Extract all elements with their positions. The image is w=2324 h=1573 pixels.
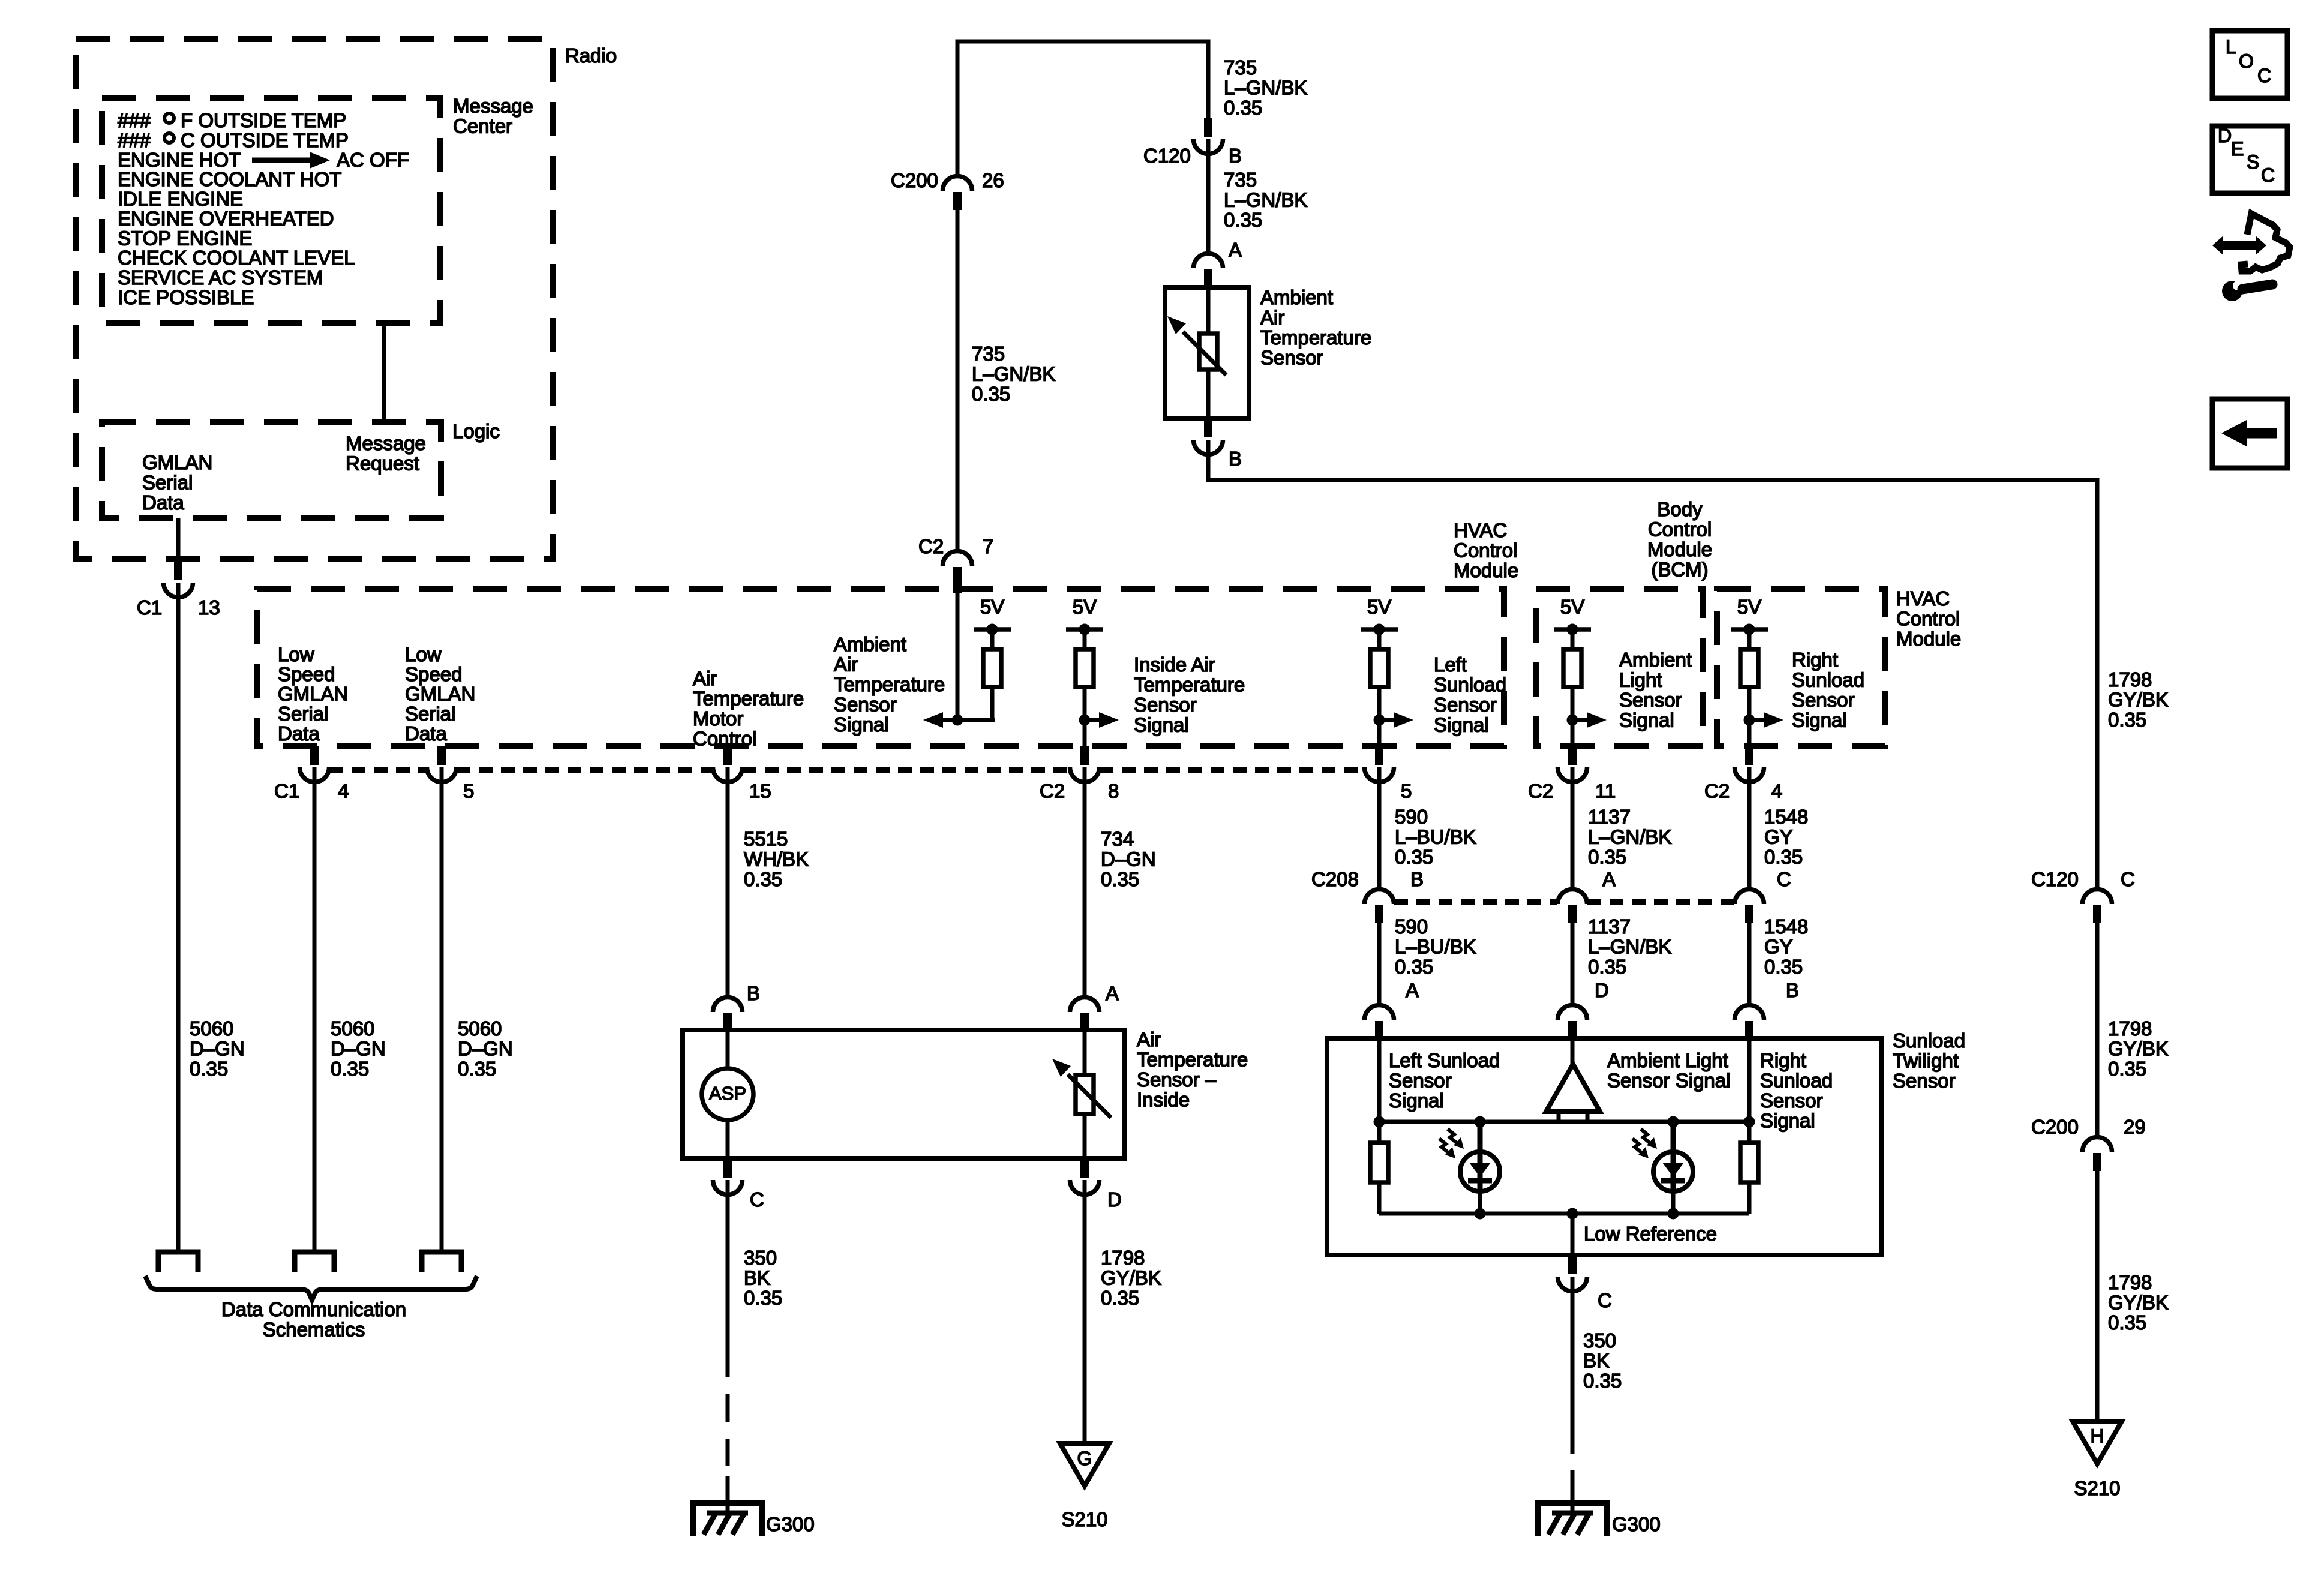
svg-text:Signal: Signal [1619,709,1674,731]
svg-text:L–GN/BK: L–GN/BK [972,363,1055,385]
svg-text:Left Sunload: Left Sunload [1389,1049,1500,1071]
svg-text:GY/BK: GY/BK [2108,689,2169,711]
svg-text:Twilight: Twilight [1893,1050,1959,1072]
svg-text:Ambient Light: Ambient Light [1607,1049,1728,1071]
svg-text:C120: C120 [2031,868,2079,890]
svg-text:Left: Left [1434,653,1467,676]
svg-text:A: A [1106,982,1119,1004]
svg-text:Ambient: Ambient [1260,286,1333,308]
svg-text:D–GN: D–GN [331,1038,386,1060]
svg-text:Center: Center [453,115,512,137]
svg-text:L–GN/BK: L–GN/BK [1588,936,1671,958]
svg-text:B: B [1229,145,1242,167]
svg-text:Right: Right [1792,649,1838,671]
svg-text:735: 735 [972,343,1005,365]
svg-text:GY/BK: GY/BK [2108,1292,2169,1314]
svg-text:5060: 5060 [458,1017,502,1040]
svg-text:L: L [2226,36,2236,58]
svg-text:L–BU/BK: L–BU/BK [1395,826,1476,848]
svg-text:Message: Message [346,432,426,454]
svg-text:29: 29 [2124,1116,2146,1138]
svg-text:ENGINE COOLANT HOT: ENGINE COOLANT HOT [118,168,341,190]
svg-text:STOP ENGINE: STOP ENGINE [118,227,252,249]
svg-text:Low: Low [405,643,442,665]
svg-text:0.35: 0.35 [331,1058,369,1080]
svg-text:5V: 5V [980,596,1004,618]
svg-text:26: 26 [982,169,1004,191]
svg-text:SERVICE AC SYSTEM: SERVICE AC SYSTEM [118,266,323,289]
svg-text:D: D [2218,125,2232,146]
svg-text:G300: G300 [1612,1513,1661,1535]
svg-text:A: A [1406,979,1419,1001]
svg-text:B: B [1786,979,1799,1001]
svg-text:D: D [1595,979,1609,1001]
svg-text:Speed: Speed [405,663,462,685]
svg-text:Data: Data [142,491,184,514]
svg-text:1798: 1798 [2108,1017,2152,1040]
svg-text:GY: GY [1764,826,1793,848]
svg-text:Ambient: Ambient [834,633,906,655]
svg-text:590: 590 [1395,806,1428,828]
svg-text:GY: GY [1764,936,1793,958]
svg-text:1798: 1798 [2108,668,2152,691]
svg-text:A: A [1229,239,1242,261]
svg-text:GMLAN: GMLAN [278,683,348,705]
svg-text:Temperature: Temperature [693,688,804,710]
svg-text:Schematics: Schematics [263,1319,365,1341]
svg-text:Air: Air [1137,1028,1161,1050]
svg-text:5V: 5V [1560,596,1584,618]
svg-text:BK: BK [1583,1350,1610,1372]
svg-text:350: 350 [1583,1329,1616,1352]
svg-text:Signal: Signal [1134,714,1189,736]
svg-text:L–BU/BK: L–BU/BK [1395,936,1476,958]
svg-text:A: A [1602,868,1616,890]
svg-text:0.35: 0.35 [1224,97,1262,119]
svg-text:1548: 1548 [1764,806,1808,828]
svg-text:Signal: Signal [1792,709,1847,731]
svg-text:L–GN/BK: L–GN/BK [1224,189,1307,211]
svg-text:C2: C2 [1040,780,1065,802]
svg-text:AC OFF: AC OFF [337,149,409,171]
svg-text:4: 4 [1771,780,1782,802]
svg-text:Motor: Motor [693,707,743,730]
svg-text:Control: Control [1896,608,1960,630]
svg-text:Sensor: Sensor [1619,689,1682,711]
svg-text:BK: BK [744,1267,770,1289]
svg-text:735: 735 [1224,169,1257,191]
svg-text:C200: C200 [891,169,938,191]
svg-text:Air: Air [1260,307,1284,329]
svg-text:5V: 5V [1367,596,1391,618]
svg-text:Sunload: Sunload [1434,674,1506,696]
svg-text:Signal: Signal [1760,1110,1815,1132]
svg-text:ICE POSSIBLE: ICE POSSIBLE [118,286,254,308]
svg-text:GY/BK: GY/BK [2108,1038,2169,1060]
svg-text:CHECK COOLANT LEVEL: CHECK COOLANT LEVEL [118,247,355,269]
svg-text:Data: Data [278,722,320,745]
svg-text:Speed: Speed [278,663,335,685]
svg-text:S: S [2247,151,2259,173]
svg-text:Sensor: Sensor [1260,347,1323,369]
svg-text:1137: 1137 [1588,915,1631,938]
svg-text:Ambient: Ambient [1619,649,1692,671]
svg-text:Sensor Signal: Sensor Signal [1607,1070,1730,1092]
svg-text:5: 5 [1401,780,1412,802]
svg-text:C: C [2261,164,2275,186]
svg-text:S210: S210 [1061,1508,1107,1530]
svg-text:1548: 1548 [1764,915,1808,938]
svg-text:4: 4 [338,780,349,802]
svg-text:Signal: Signal [834,713,889,736]
svg-text:Serial: Serial [405,703,455,725]
svg-text:Light: Light [1619,669,1662,691]
svg-text:Air: Air [693,667,717,689]
svg-text:Data: Data [405,722,447,745]
svg-text:S210: S210 [2074,1477,2120,1499]
svg-text:(BCM): (BCM) [1651,559,1708,581]
svg-text:L–GN/BK: L–GN/BK [1224,77,1307,99]
svg-text:Low Reference: Low Reference [1584,1223,1717,1245]
svg-text:0.35: 0.35 [1583,1370,1622,1392]
svg-text:590: 590 [1395,915,1428,938]
svg-text:11: 11 [1595,780,1616,802]
svg-text:Inside Air: Inside Air [1134,653,1215,676]
svg-text:###: ### [118,129,151,151]
svg-text:0.35: 0.35 [2108,1058,2146,1080]
svg-text:C2: C2 [1528,780,1553,802]
svg-text:GY/BK: GY/BK [1101,1267,1161,1289]
svg-text:8: 8 [1108,780,1119,802]
svg-text:###: ### [118,109,151,131]
svg-text:0.35: 0.35 [1588,956,1626,978]
svg-text:734: 734 [1101,828,1134,850]
svg-text:C1: C1 [137,596,162,619]
svg-text:IDLE ENGINE: IDLE ENGINE [118,188,243,210]
svg-text:0.35: 0.35 [1101,868,1139,890]
svg-text:Radio: Radio [565,44,617,67]
svg-text:HVAC: HVAC [1896,587,1950,610]
svg-text:Sensor: Sensor [1134,694,1197,716]
svg-text:0.35: 0.35 [2108,1311,2146,1334]
svg-text:Logic: Logic [452,420,500,442]
svg-text:Sensor –: Sensor – [1137,1068,1217,1091]
svg-text:F OUTSIDE TEMP: F OUTSIDE TEMP [181,109,346,131]
svg-text:0.35: 0.35 [1395,956,1433,978]
svg-text:350: 350 [744,1247,777,1269]
svg-text:G300: G300 [766,1513,815,1535]
svg-text:C2: C2 [1704,780,1730,802]
svg-text:Body: Body [1657,498,1703,520]
svg-text:0.35: 0.35 [190,1058,228,1080]
svg-text:0.35: 0.35 [1101,1287,1139,1309]
svg-text:Sensor: Sensor [1760,1089,1823,1112]
svg-text:E: E [2231,138,2244,160]
svg-text:Sensor: Sensor [1792,689,1855,711]
svg-text:735: 735 [1224,56,1257,79]
svg-text:D–GN: D–GN [190,1038,245,1060]
svg-text:5060: 5060 [190,1017,233,1040]
svg-text:Data Communication: Data Communication [221,1298,406,1320]
svg-text:1798: 1798 [2108,1271,2152,1293]
svg-text:Sunload: Sunload [1893,1029,1965,1052]
svg-text:1137: 1137 [1588,806,1631,828]
svg-text:0.35: 0.35 [1224,209,1262,231]
svg-text:Control: Control [693,728,756,750]
svg-text:HVAC: HVAC [1454,519,1507,541]
svg-text:Temperature: Temperature [834,673,945,695]
svg-text:5V: 5V [1073,596,1097,618]
svg-text:Module: Module [1896,628,1961,650]
svg-text:ENGINE OVERHEATED: ENGINE OVERHEATED [118,208,334,230]
svg-text:B: B [747,982,760,1004]
svg-text:0.35: 0.35 [744,868,782,890]
svg-text:5V: 5V [1737,596,1761,618]
svg-text:H: H [2090,1425,2104,1447]
svg-text:5060: 5060 [331,1017,374,1040]
svg-text:WH/BK: WH/BK [744,848,809,870]
svg-text:C1: C1 [274,780,299,802]
svg-text:Inside: Inside [1137,1089,1190,1111]
svg-text:C: C [2257,65,2271,86]
svg-text:GMLAN: GMLAN [405,683,475,705]
svg-text:0.35: 0.35 [458,1058,496,1080]
svg-text:C: C [1598,1289,1612,1311]
svg-text:0.35: 0.35 [972,383,1010,405]
svg-text:Sensor: Sensor [1893,1070,1956,1092]
svg-text:C: C [2121,868,2135,890]
svg-text:0.35: 0.35 [1588,846,1626,868]
svg-text:C200: C200 [2031,1116,2079,1138]
svg-text:Air: Air [834,653,858,676]
svg-text:C: C [750,1188,764,1211]
svg-text:Request: Request [346,452,419,475]
svg-text:Right: Right [1760,1049,1806,1071]
svg-text:Module: Module [1647,538,1712,560]
svg-text:G: G [1077,1448,1092,1469]
svg-text:0.35: 0.35 [1764,956,1803,978]
svg-text:0.35: 0.35 [1764,846,1803,868]
svg-text:B: B [1410,868,1424,890]
svg-text:ASP: ASP [709,1083,746,1104]
svg-text:D–GN: D–GN [1101,848,1156,870]
svg-text:Sunload: Sunload [1760,1070,1833,1092]
svg-text:GMLAN: GMLAN [142,451,212,473]
svg-text:0.35: 0.35 [1395,846,1433,868]
svg-text:Temperature: Temperature [1134,674,1245,696]
svg-text:O: O [2239,50,2254,72]
svg-text:0.35: 0.35 [2108,709,2146,731]
svg-text:Sensor: Sensor [1389,1070,1452,1092]
svg-text:13: 13 [198,596,220,619]
svg-text:Module: Module [1454,559,1518,581]
svg-text:5515: 5515 [744,828,788,850]
svg-text:Low: Low [278,643,314,665]
svg-text:C OUTSIDE TEMP: C OUTSIDE TEMP [181,129,349,151]
svg-text:Control: Control [1648,518,1712,541]
svg-text:Signal: Signal [1389,1089,1444,1112]
svg-text:C120: C120 [1143,145,1191,167]
svg-text:C2: C2 [918,535,944,557]
svg-text:Sensor: Sensor [834,694,897,716]
svg-text:D: D [1107,1188,1122,1211]
svg-text:0.35: 0.35 [744,1287,782,1309]
svg-text:Message: Message [453,95,533,117]
svg-text:Sunload: Sunload [1792,669,1864,691]
svg-text:Signal: Signal [1434,714,1489,736]
svg-text:C: C [1777,868,1791,890]
svg-text:15: 15 [749,780,771,802]
svg-text:5: 5 [463,780,474,802]
svg-text:L–GN/BK: L–GN/BK [1588,826,1671,848]
svg-text:B: B [1229,448,1242,470]
svg-text:C208: C208 [1311,868,1359,890]
svg-text:Serial: Serial [142,472,193,494]
svg-text:Sensor: Sensor [1434,694,1497,716]
svg-text:D–GN: D–GN [458,1038,513,1060]
svg-text:1798: 1798 [1101,1247,1145,1269]
svg-text:Temperature: Temperature [1260,326,1371,349]
svg-text:Temperature: Temperature [1137,1049,1248,1071]
svg-text:Serial: Serial [278,703,328,725]
svg-text:7: 7 [983,535,993,557]
svg-text:Control: Control [1454,539,1517,562]
